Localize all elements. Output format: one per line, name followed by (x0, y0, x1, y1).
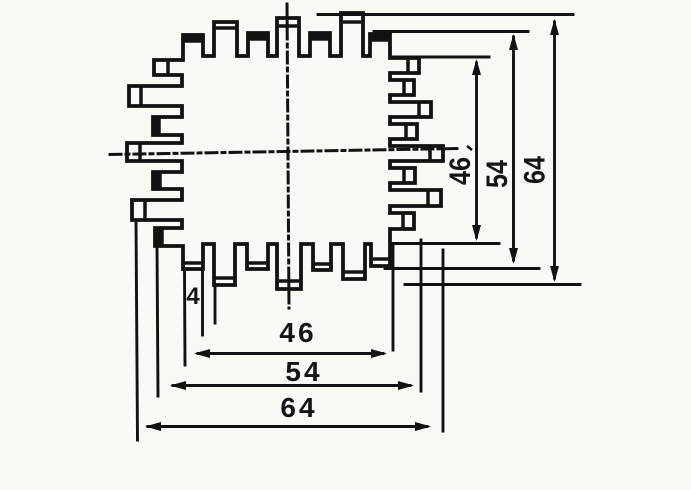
svg-text:64: 64 (280, 392, 317, 423)
dimension line 46 right (475, 63, 478, 237)
svg-text:46: 46 (279, 317, 316, 348)
extension line bottom for 64 right (405, 283, 580, 286)
extension line left for 46 bottom (tooth edge extended, 4 dim) (183, 269, 186, 365)
arrowheads 54 right (509, 34, 518, 50)
svg-text:54: 54 (285, 356, 322, 387)
filled tooth tip L6 (154, 227, 163, 247)
dimension line 54 bottom (173, 384, 410, 387)
tooth tip cap lines, right edge (403, 59, 430, 228)
svg-text:64: 64 (518, 156, 551, 184)
arrowheads 46 bottom (194, 349, 210, 358)
svg-text:46: 46 (444, 157, 477, 185)
filled tooth tip L2 (152, 116, 160, 136)
extension line bottom for 54 right (385, 267, 539, 270)
dimension line 64 bottom (148, 425, 427, 428)
extension line left for 54 bottom (157, 246, 158, 396)
vertical centerline (dash-dot) (287, 4, 289, 308)
filled tooth tip T5 (309, 32, 330, 40)
tooth tip cap lines, left edge (140, 61, 168, 245)
extension line bottom for 46 right (392, 242, 499, 245)
part outline (castellated square plate) (127, 13, 443, 289)
horizontal centerline (dash-dot) (110, 149, 458, 155)
dimension line 54 right (512, 37, 515, 260)
extension line top for 64 right (318, 13, 573, 16)
tooth tip cap lines, bottom edge (184, 259, 389, 281)
extension line right side of 4mm tooth (201, 269, 204, 335)
svg-text:4: 4 (186, 283, 200, 310)
arrowheads 46 right (472, 59, 481, 75)
arrowheads 54 bottom (170, 381, 186, 390)
arrowheads 64 bottom (145, 422, 161, 431)
extension line right for 54 bottom (420, 240, 423, 391)
extension line right for 64 bottom (442, 250, 445, 431)
extension line top for 46 right (391, 56, 489, 59)
extension line right for 46 bottom (392, 244, 395, 350)
filled tooth tip T3 (247, 32, 268, 40)
arrowheads 64 right (550, 19, 559, 35)
tick mark near 46 right label (467, 146, 472, 150)
tooth tip cap lines, top edge (184, 22, 389, 41)
dimension line 46 bottom (198, 352, 383, 355)
dimension line 64 right (553, 22, 556, 278)
extension line top for 54 right (374, 30, 528, 33)
svg-text:54: 54 (481, 160, 514, 188)
extension line left for 64 bottom (136, 220, 138, 440)
filled tooth tip T1 (182, 34, 203, 42)
filled tooth tip L4 (152, 171, 160, 190)
extension line below tooth B2 (214, 285, 217, 323)
filled tooth tip T7 (369, 33, 390, 41)
